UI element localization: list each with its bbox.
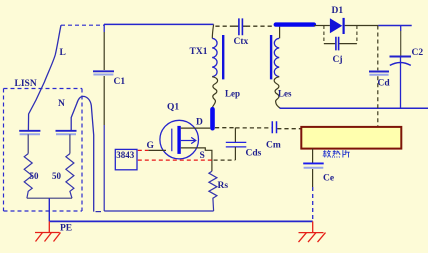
svg-text:TX1: TX1 bbox=[190, 47, 208, 57]
svg-text:D1: D1 bbox=[332, 6, 344, 16]
svg-text:50: 50 bbox=[52, 171, 62, 181]
svg-text:L: L bbox=[60, 48, 66, 58]
svg-text:G: G bbox=[147, 141, 155, 151]
svg-text:Lep: Lep bbox=[225, 88, 240, 98]
svg-text:Q1: Q1 bbox=[167, 103, 179, 113]
svg-text:C1: C1 bbox=[114, 77, 126, 87]
svg-text:LISN: LISN bbox=[15, 79, 37, 89]
svg-text:Cj: Cj bbox=[333, 55, 343, 65]
svg-text:D: D bbox=[196, 118, 203, 128]
svg-text:N: N bbox=[58, 99, 65, 109]
svg-text:3843: 3843 bbox=[116, 150, 135, 160]
svg-text:Cm: Cm bbox=[266, 140, 281, 150]
svg-text:Ce: Ce bbox=[323, 174, 334, 184]
svg-text:Cd: Cd bbox=[378, 79, 391, 89]
svg-text:PE: PE bbox=[60, 224, 72, 234]
svg-text:Les: Les bbox=[278, 88, 292, 98]
svg-text:Rs: Rs bbox=[218, 181, 229, 191]
svg-text:C2: C2 bbox=[412, 48, 424, 58]
svg-text:S: S bbox=[200, 151, 205, 161]
svg-text:50: 50 bbox=[30, 171, 40, 181]
svg-text:Cds: Cds bbox=[246, 149, 262, 159]
svg-text:Ctx: Ctx bbox=[234, 37, 249, 47]
